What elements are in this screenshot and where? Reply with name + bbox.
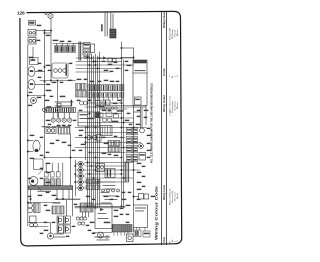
- svg-text:Code: Code: [162, 237, 166, 243]
- svg-text:Wiring Colour: Wiring Colour: [162, 94, 166, 112]
- svg-text:Wiring Colour: Wiring Colour: [162, 184, 166, 200]
- svg-text:Code: Code: [162, 68, 166, 76]
- svg-text:G: G: [177, 75, 179, 77]
- svg-text:G: G: [177, 240, 179, 242]
- svg-text:126: 126: [17, 10, 25, 16]
- svg-text:Wiring Colour Code: Wiring Colour Code: [154, 186, 158, 240]
- svg-text:Blue: Blue: [177, 28, 179, 36]
- svg-text:Blue: Blue: [177, 101, 179, 109]
- svg-text:...: ...: [170, 236, 173, 240]
- svg-text:Wiring Colour: Wiring Colour: [162, 11, 166, 28]
